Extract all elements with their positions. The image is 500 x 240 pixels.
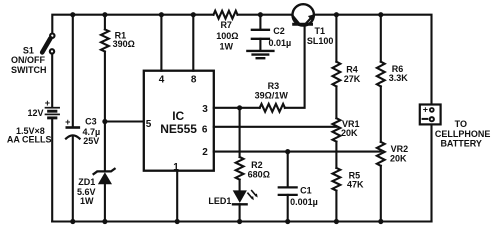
LED LED1 anode triangle	[233, 190, 247, 203]
wire R5 to bottom	[335, 191, 337, 222]
wire pin3 output	[214, 107, 260, 109]
node C1 top	[285, 149, 290, 154]
svg-text:+: +	[423, 105, 428, 115]
wire pin3 junction to R2	[239, 108, 241, 157]
node pin1 ground	[175, 219, 180, 224]
svg-text:5: 5	[146, 119, 152, 130]
wire C2 top	[259, 15, 261, 29]
capacitor C2 plate bottom	[252, 38, 269, 40]
svg-text:1: 1	[173, 162, 179, 173]
transistor T1 emitter lead	[306, 15, 314, 23]
svg-text:S1: S1	[23, 46, 34, 56]
svg-text:NE555: NE555	[160, 122, 197, 136]
svg-text:1W: 1W	[219, 42, 233, 52]
wire R1 top	[104, 15, 106, 30]
svg-text:VR2: VR2	[391, 144, 409, 154]
potentiometer VR1	[333, 118, 341, 141]
node ZD1 bottom	[102, 219, 107, 224]
svg-text:3: 3	[202, 104, 208, 115]
svg-text:SWITCH: SWITCH	[11, 65, 47, 75]
wire R3 to T1 base	[285, 25, 305, 108]
svg-text:4: 4	[159, 75, 165, 86]
resistor R4	[333, 62, 341, 87]
capacitor C3 plate top	[67, 126, 79, 129]
wire C1 top	[287, 152, 289, 187]
wire pin8	[192, 15, 194, 71]
wire ZD1 to bottom	[104, 184, 106, 222]
wire switch to battery positive	[51, 54, 53, 107]
svg-text:R3: R3	[268, 81, 280, 91]
svg-text:T1: T1	[315, 26, 326, 36]
svg-text:0.001µ: 0.001µ	[290, 197, 318, 207]
wire R7 to T1 collector	[238, 14, 293, 16]
node C3 bottom	[70, 219, 75, 224]
wire R4 to VR1	[335, 86, 337, 118]
resistor R5	[333, 168, 341, 191]
op-amp U1 IC NE555 box	[144, 71, 214, 171]
connector pin circle minus	[430, 117, 434, 121]
svg-text:390Ω: 390Ω	[113, 39, 135, 49]
svg-text:39Ω/1W: 39Ω/1W	[255, 91, 289, 101]
battery BATT 12V plate long 1	[46, 107, 60, 109]
wire R6 to VR2	[380, 86, 382, 141]
wire pin2	[214, 151, 381, 153]
switch S1 bottom contact	[50, 49, 54, 53]
node pin4	[159, 12, 164, 17]
wire connector to bottom rail	[430, 125, 432, 221]
connector pin circle plus	[430, 108, 434, 112]
LED LED1 cathode bar	[233, 203, 247, 205]
wire VR1 to R5	[335, 142, 337, 168]
svg-text:C3: C3	[85, 117, 97, 127]
node pin8	[191, 12, 196, 17]
svg-text:25V: 25V	[83, 136, 99, 146]
svg-text:BATTERY: BATTERY	[440, 139, 482, 149]
transistor T1 emitter arrow	[308, 14, 315, 20]
node R4 top	[334, 12, 339, 17]
wire pin4	[160, 15, 162, 71]
svg-text:+: +	[45, 98, 50, 108]
capacitor C2 plate top	[252, 29, 269, 31]
svg-text:12V: 12V	[27, 108, 43, 118]
svg-text:LED1: LED1	[208, 196, 231, 206]
capacitor C3 plate bottom curved	[66, 135, 80, 138]
svg-text:C1: C1	[300, 185, 312, 195]
wire R4 top	[335, 15, 337, 62]
svg-text:C2: C2	[273, 26, 285, 36]
wire VR2 to bottom	[380, 166, 382, 222]
svg-text:8: 8	[191, 75, 197, 86]
wire top rail left	[52, 15, 213, 34]
wire C3 top	[72, 15, 74, 127]
capacitor C1 plate bottom	[279, 194, 297, 196]
svg-text:20K: 20K	[341, 128, 358, 138]
battery plate short 1	[49, 110, 56, 113]
svg-text:27K: 27K	[344, 74, 361, 84]
zener ZD1 anode triangle	[98, 172, 112, 184]
node C2 top	[258, 12, 263, 17]
resistor R2	[236, 157, 244, 180]
transistor T1 circle	[293, 4, 314, 25]
svg-text:100Ω: 100Ω	[216, 31, 238, 41]
transistor T1 base bar	[294, 23, 312, 26]
resistor R7	[214, 11, 238, 19]
node R1 top	[102, 12, 107, 17]
wire pin1	[176, 171, 178, 222]
connector minus sign	[423, 118, 428, 120]
svg-text:SL100: SL100	[307, 36, 334, 46]
resistor R1	[101, 29, 109, 51]
svg-text:TO: TO	[455, 119, 467, 129]
resistor R6	[377, 62, 385, 87]
wire R6 top	[380, 15, 382, 62]
wire T1 emitter rail to output	[314, 15, 431, 104]
battery plate short 2	[49, 116, 56, 119]
switch S1 lever	[42, 38, 50, 52]
node C3 top	[70, 12, 75, 17]
wire pin6	[214, 126, 337, 128]
battery plate long 2	[46, 113, 60, 115]
svg-text:47K: 47K	[347, 179, 364, 189]
svg-text:ON/OFF: ON/OFF	[11, 55, 45, 65]
wire LED1 to bottom	[239, 204, 241, 221]
node pin3 junction	[237, 105, 242, 110]
node C1 bottom	[285, 219, 290, 224]
resistor R3	[260, 104, 285, 112]
wire R2 to LED1	[239, 180, 241, 191]
wire C2 to ground	[259, 39, 261, 51]
switch S1 top contact	[50, 34, 54, 38]
wire R1 to ZD1	[104, 52, 106, 171]
svg-text:ZD1: ZD1	[78, 177, 95, 187]
wire bottom rail	[52, 220, 431, 222]
svg-text:+: +	[65, 117, 70, 127]
svg-text:680Ω: 680Ω	[248, 169, 270, 179]
node VR2 bottom	[378, 219, 383, 224]
ground	[247, 50, 273, 52]
svg-text:2: 2	[202, 147, 208, 158]
node pin5 junction	[102, 119, 107, 124]
svg-text:6: 6	[202, 125, 208, 136]
svg-text:3.3K: 3.3K	[389, 73, 409, 83]
wire C3 bottom	[72, 136, 74, 222]
svg-text:20K: 20K	[390, 154, 407, 164]
LED LED1 emission arrows	[248, 193, 252, 198]
wire C1 bottom	[287, 195, 289, 222]
capacitor C1 plate top	[279, 186, 297, 188]
potentiometer VR2	[377, 142, 385, 166]
svg-text:AA CELLS: AA CELLS	[7, 135, 52, 145]
svg-text:R7: R7	[220, 20, 232, 30]
transistor T1 collector lead	[292, 15, 299, 23]
svg-text:0.01µ: 0.01µ	[268, 38, 291, 48]
svg-text:1W: 1W	[80, 196, 94, 206]
zener ZD1 cathode bar	[94, 169, 115, 174]
wire pin5	[105, 120, 144, 122]
connector J1 output socket	[420, 105, 441, 125]
node R6 top	[378, 12, 383, 17]
wire battery negative	[51, 119, 53, 222]
node LED1 bottom	[237, 219, 242, 224]
node R5 bottom	[334, 219, 339, 224]
svg-text:IC: IC	[172, 109, 184, 123]
